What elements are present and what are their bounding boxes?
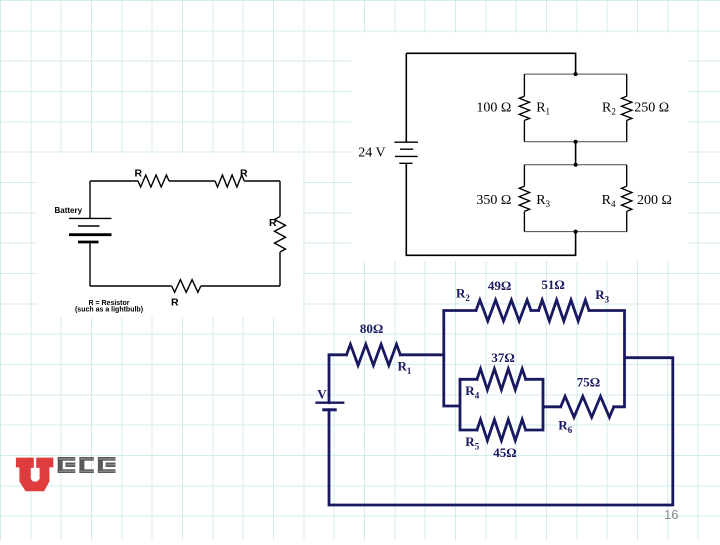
svg-text:R2: R2 (456, 286, 470, 304)
svg-text:R: R (171, 297, 179, 309)
svg-text:16: 16 (664, 507, 678, 522)
svg-text:80Ω: 80Ω (360, 321, 383, 336)
svg-text:24 V: 24 V (358, 146, 385, 161)
svg-text:R: R (240, 168, 248, 180)
svg-text:R1: R1 (398, 359, 412, 377)
svg-text:100 Ω: 100 Ω (476, 100, 511, 115)
svg-text:R: R (269, 217, 277, 229)
svg-text:75Ω: 75Ω (577, 374, 600, 389)
svg-text:51Ω: 51Ω (541, 277, 564, 292)
svg-text:(such as a lightbulb): (such as a lightbulb) (75, 307, 143, 314)
svg-text:49Ω: 49Ω (488, 278, 511, 293)
svg-text:R: R (135, 168, 143, 180)
svg-text:R6: R6 (558, 418, 572, 436)
svg-text:Battery: Battery (55, 206, 83, 215)
svg-text:250 Ω: 250 Ω (634, 100, 669, 115)
svg-text:R4: R4 (465, 383, 479, 401)
svg-text:350 Ω: 350 Ω (476, 193, 511, 208)
svg-text:200 Ω: 200 Ω (637, 193, 672, 208)
svg-text:R5: R5 (465, 434, 479, 452)
svg-text:V: V (317, 387, 327, 402)
svg-text:45Ω: 45Ω (493, 445, 516, 460)
svg-text:37Ω: 37Ω (491, 350, 514, 365)
